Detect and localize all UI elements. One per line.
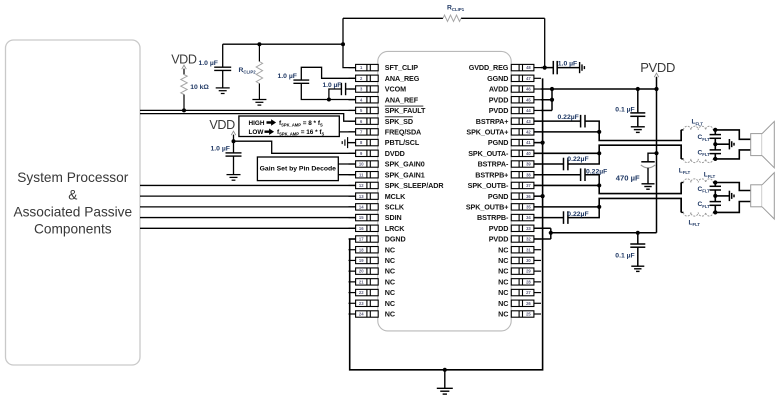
- svg-text:Associated Passive: Associated Passive: [13, 205, 132, 220]
- svg-text:26: 26: [526, 301, 531, 306]
- pin 18 NC: [349, 245, 395, 254]
- svg-text:PVDD: PVDD: [489, 235, 509, 244]
- capacitor 0.22uF (BSTRPA+): [534, 120, 581, 122]
- wire SDIN: [140, 217, 356, 219]
- wire SPK_SD net: [140, 114, 356, 122]
- svg-text:36: 36: [526, 194, 531, 199]
- svg-text:SPK_FAULT: SPK_FAULT: [385, 106, 426, 115]
- svg-text:27: 27: [526, 290, 531, 295]
- pin 32 PVDD: [489, 235, 541, 244]
- wire SPK_OUTB+: [534, 198, 681, 212]
- wire A to speaker bottom: [715, 150, 750, 159]
- ground (0.1uF bottom): [631, 265, 644, 267]
- svg-text:NC: NC: [498, 299, 508, 308]
- svg-text:1.0 µF: 1.0 µF: [278, 73, 297, 80]
- svg-text:1.0 µF: 1.0 µF: [211, 145, 230, 152]
- pin 43 BSTRPA+: [476, 117, 541, 126]
- svg-text:29: 29: [526, 269, 531, 274]
- svg-text:DGND: DGND: [385, 235, 406, 244]
- svg-text:NC: NC: [498, 277, 508, 286]
- svg-text:18: 18: [359, 247, 364, 252]
- pin 2 ANA_REG: [349, 74, 420, 83]
- junction ANA_REF node: [327, 98, 331, 102]
- capacitor 470uF: [648, 153, 657, 161]
- svg-text:NC: NC: [385, 256, 395, 265]
- svg-text:BSTRPA+: BSTRPA+: [476, 117, 509, 126]
- wire FREQ/SDA: [339, 131, 355, 133]
- svg-text:17: 17: [359, 237, 364, 242]
- pin 31 NC: [498, 245, 541, 254]
- svg-text:PVDD: PVDD: [489, 95, 509, 104]
- svg-text:0.22µF: 0.22µF: [567, 156, 588, 163]
- svg-text:21: 21: [359, 279, 364, 284]
- junction filter B bottom: [713, 210, 717, 214]
- junction BSTRPB-/OUTB+: [597, 205, 601, 209]
- pin 11 SPK_GAIN1: [349, 170, 425, 179]
- ground (GVDD_REG cap): [579, 62, 581, 73]
- svg-text:NC: NC: [385, 310, 395, 319]
- junction filter B mid: [713, 194, 717, 198]
- capacitor 1.0uF (ANA_REG): [293, 79, 309, 81]
- wire MCLK: [140, 195, 356, 197]
- wire DVDD: [233, 135, 235, 153]
- wire PGND pin41: [534, 142, 543, 144]
- wire PVDD bottom rail: [551, 232, 657, 234]
- pin 38 BSTRPB+: [475, 170, 541, 179]
- svg-text:NC: NC: [385, 245, 395, 254]
- pin 28 NC: [498, 277, 541, 286]
- pin 15 SDIN: [349, 213, 402, 222]
- wire LRCK: [140, 227, 356, 229]
- svg-text:11: 11: [359, 172, 364, 177]
- svg-text:MCLK: MCLK: [385, 192, 406, 201]
- junction 0.1uF bottom: [636, 231, 640, 235]
- junction BSTRPA-/OUTA-: [597, 151, 601, 155]
- wire SPK_GAIN0: [338, 163, 355, 165]
- pin 29 NC: [498, 267, 541, 276]
- ground (PBTL/SCL): [347, 137, 349, 148]
- junction filter A mid: [713, 142, 717, 146]
- svg-text:PBTL/SCL: PBTL/SCL: [385, 138, 420, 147]
- junction GVDD_REG: [543, 66, 547, 70]
- svg-text:NC: NC: [498, 288, 508, 297]
- svg-text:SPK_SD: SPK_SD: [385, 117, 413, 126]
- pin 36 PGND: [488, 192, 541, 201]
- svg-text:SFT_CLIP: SFT_CLIP: [385, 63, 418, 72]
- svg-text:SPK_OUTA-: SPK_OUTA-: [468, 149, 509, 158]
- svg-text:BSTRPB-: BSTRPB-: [477, 213, 509, 222]
- pin 46 AVDD: [489, 85, 541, 94]
- svg-text:BSTRPB+: BSTRPB+: [475, 170, 508, 179]
- pin 4 ANA_REF: [349, 95, 419, 104]
- wire SCLK: [140, 206, 356, 208]
- junction filter A top: [713, 128, 717, 132]
- pin 34 BSTRPB-: [477, 213, 541, 222]
- svg-text:HIGH: HIGH: [249, 120, 265, 127]
- junction BSTRPB+/OUTB-: [597, 183, 601, 187]
- wire PVDD rail vertical: [656, 77, 658, 233]
- svg-text:PGND: PGND: [488, 138, 508, 147]
- inductor L_FLT A bottom: [681, 158, 683, 160]
- wire A mid to ground: [715, 143, 729, 145]
- pin 23 NC: [349, 299, 395, 308]
- capacitor C_FLT B lower: [714, 190, 716, 202]
- wire AVDD/PVDD tie: [541, 88, 552, 90]
- pin 9 DVDD: [349, 149, 405, 158]
- pin 26 NC: [498, 299, 541, 308]
- pin 25 NC: [498, 310, 541, 319]
- wire A to speaker top: [715, 130, 750, 139]
- pin 42 SPK_OUTA+: [466, 127, 541, 136]
- IC U1 TAS5713 body: [378, 51, 511, 331]
- svg-text:1.0 µF: 1.0 µF: [323, 82, 342, 89]
- wire SPK_SLEEP/ADR: [140, 184, 356, 186]
- pin 19 NC: [349, 256, 395, 265]
- svg-text:45: 45: [526, 97, 531, 102]
- svg-text:PVDD: PVDD: [489, 106, 509, 115]
- wire SFT_CLIP node: [223, 43, 343, 45]
- svg-text:47: 47: [526, 76, 531, 81]
- svg-text:NC: NC: [498, 256, 508, 265]
- svg-text:16: 16: [359, 226, 364, 231]
- capacitor 0.22uF (BSTRPB-): [534, 217, 564, 219]
- pin 6 SPK_SD: [349, 117, 413, 126]
- svg-text:44: 44: [526, 108, 531, 113]
- svg-text:13: 13: [359, 194, 364, 199]
- ground (470uF): [642, 183, 655, 185]
- resistor R_CLIP2: [258, 44, 260, 61]
- pin 3 VCOM: [349, 85, 407, 94]
- svg-text:PGND: PGND: [488, 192, 508, 201]
- capacitor C_FLT A upper: [714, 130, 716, 135]
- pin 20 NC: [349, 267, 395, 276]
- svg-text:NC: NC: [385, 267, 395, 276]
- system processor block: [6, 40, 141, 365]
- wire SPK_OUTA-: [534, 145, 681, 159]
- capacitor 1.0uF (VCOM): [329, 89, 342, 100]
- ground (main): [444, 370, 446, 389]
- svg-text:470 µF: 470 µF: [616, 173, 640, 182]
- svg-text:28: 28: [526, 279, 531, 284]
- pin 12 SPK_SLEEP/ADR: [349, 181, 445, 190]
- junction pullup-SPK_FAULT: [182, 108, 186, 112]
- capacitor 0.1uF (top): [637, 89, 639, 113]
- capacitor 1.0uF (GVDD_REG): [541, 67, 553, 69]
- svg-text:23: 23: [359, 301, 364, 306]
- svg-text:PVDD: PVDD: [489, 224, 509, 233]
- junction DVDD cap: [232, 139, 236, 143]
- pin 7 FREQ/SDA: [349, 127, 422, 136]
- junction PVDD rail top: [654, 87, 658, 91]
- svg-text:40: 40: [526, 151, 531, 156]
- wire SPK_OUTB-: [534, 183, 681, 194]
- junction 470uF-PVDD: [654, 151, 658, 155]
- svg-text:33: 33: [526, 226, 531, 231]
- svg-text:19: 19: [359, 258, 364, 263]
- pin 37 SPK_OUTB-: [468, 181, 541, 190]
- annotation box HIGH/LOW fs: [239, 116, 339, 137]
- svg-text:35: 35: [526, 204, 531, 209]
- annotation box gain: [257, 157, 338, 181]
- pin 10 SPK_GAIN0: [349, 160, 425, 169]
- pin 21 NC: [349, 277, 395, 286]
- svg-text:42: 42: [526, 129, 531, 134]
- inductor L_FLT B bottom: [681, 211, 683, 213]
- speaker B: [751, 185, 762, 207]
- svg-text:VDD: VDD: [209, 118, 235, 132]
- junction filter A bottom: [713, 157, 717, 161]
- junction PVDD pin45: [550, 98, 554, 102]
- svg-text:10 kΩ: 10 kΩ: [190, 84, 209, 91]
- junction PGND pin41: [541, 140, 545, 144]
- junction PGND pin36: [541, 194, 545, 198]
- resistor R-pullup 10 k&#937;: [183, 69, 185, 75]
- svg-text:SPK_GAIN0: SPK_GAIN0: [385, 160, 425, 169]
- svg-text:15: 15: [359, 215, 364, 220]
- svg-text:0.1 µF: 0.1 µF: [615, 252, 634, 259]
- wire PVDD top rail: [552, 88, 657, 90]
- svg-text:GGND: GGND: [487, 74, 508, 83]
- svg-text:FREQ/SDA: FREQ/SDA: [385, 127, 421, 136]
- capacitor C_FLT B upper: [714, 183, 716, 187]
- junction PVDD bottom tie: [549, 231, 553, 235]
- svg-text:14: 14: [359, 204, 364, 209]
- pin 24 NC: [349, 310, 395, 319]
- speaker A: [751, 134, 762, 156]
- svg-text:25: 25: [526, 312, 531, 317]
- svg-text:0.22µF: 0.22µF: [567, 211, 588, 218]
- svg-text:34: 34: [526, 215, 531, 220]
- capacitor 0.22uF (BSTRPB+): [534, 174, 581, 176]
- svg-text:22: 22: [359, 290, 364, 295]
- pin 30 NC: [498, 256, 541, 265]
- capacitor 1.0uF (DVDD): [226, 152, 242, 154]
- pin 33 PVDD: [489, 224, 541, 233]
- svg-text:10: 10: [359, 162, 364, 167]
- ground (filter A): [728, 139, 730, 149]
- inductor L_FLT B top: [681, 182, 683, 184]
- ground (filter B): [728, 191, 730, 201]
- svg-text:NC: NC: [385, 277, 395, 286]
- pin 8 PBTL/SCL: [349, 138, 420, 147]
- junction AVDD: [550, 87, 554, 91]
- resistor R_CLIP1: [443, 15, 461, 21]
- pin 35 SPK_OUTB+: [466, 202, 541, 211]
- pin 13 MCLK: [349, 192, 407, 201]
- svg-text:LOW: LOW: [249, 129, 265, 136]
- svg-text:38: 38: [526, 172, 531, 177]
- capacitor 0.22uF (BSTRPA-): [534, 163, 564, 165]
- wire SPK_OUTA+: [534, 130, 681, 141]
- svg-text:41: 41: [526, 140, 531, 145]
- svg-text:SPK_GAIN1: SPK_GAIN1: [385, 170, 425, 179]
- svg-text:48: 48: [526, 65, 531, 70]
- pin 16 LRCK: [349, 224, 406, 233]
- svg-text:Gain Set by Pin Decode: Gain Set by Pin Decode: [260, 165, 337, 172]
- ground (R_CLIP2): [252, 99, 266, 101]
- svg-text:SPK_OUTB-: SPK_OUTB-: [468, 181, 509, 190]
- wire R_CLIP1 left: [343, 17, 545, 19]
- svg-text:Components: Components: [34, 222, 112, 237]
- svg-text:NC: NC: [385, 299, 395, 308]
- pin 22 NC: [349, 288, 395, 297]
- junction filter B top: [713, 180, 717, 184]
- capacitor 1.0uF (SFT_CLIP): [222, 44, 224, 67]
- svg-text:NC: NC: [498, 267, 508, 276]
- pin 1 SFT_CLIP: [349, 63, 419, 72]
- svg-text:VCOM: VCOM: [385, 85, 406, 94]
- svg-text:PVDD: PVDD: [640, 60, 675, 75]
- wire SFT_CLIP vertical: [343, 18, 356, 67]
- svg-text:ANA_REG: ANA_REG: [385, 74, 420, 83]
- svg-text:46: 46: [526, 87, 531, 92]
- svg-text:24: 24: [359, 312, 364, 317]
- pin 39 BSTRPA-: [478, 160, 541, 169]
- svg-text:0.22µF: 0.22µF: [558, 114, 579, 121]
- ground (DVDD cap): [227, 174, 241, 176]
- junction BSTRPA+/OUTA+: [597, 130, 601, 134]
- pin 17 DGND: [349, 235, 406, 244]
- junction bottom ground: [443, 368, 447, 372]
- svg-text:SPK_SLEEP/ADR: SPK_SLEEP/ADR: [385, 181, 445, 190]
- svg-text:NC: NC: [498, 245, 508, 254]
- pin 5 SPK_FAULT: [349, 106, 427, 115]
- capacitor C_FLT A lower: [714, 138, 716, 150]
- svg-text:0.22µF: 0.22µF: [586, 168, 607, 175]
- pin 45 PVDD: [489, 95, 541, 104]
- pin 40 SPK_OUTA-: [468, 149, 541, 158]
- svg-text:20: 20: [359, 269, 364, 274]
- svg-text:&: &: [68, 188, 77, 203]
- svg-text:BSTRPA-: BSTRPA-: [478, 160, 509, 169]
- svg-text:37: 37: [526, 183, 531, 188]
- junction 0.1uF top: [636, 87, 640, 91]
- wire DGND loop: [350, 78, 543, 369]
- wire PVDD bottom tie: [534, 227, 551, 229]
- pin 27 NC: [498, 288, 541, 297]
- junction SFT_CLIP tee: [341, 42, 345, 46]
- svg-text:SPK_OUTA+: SPK_OUTA+: [466, 127, 508, 136]
- svg-text:SPK_OUTB+: SPK_OUTB+: [466, 202, 508, 211]
- wire B to speaker bottom: [715, 202, 750, 213]
- wire SPK_GAIN1: [338, 174, 355, 176]
- wire GVDD_REG vertical: [544, 18, 546, 67]
- svg-text:43: 43: [526, 119, 531, 124]
- pin 48 GVDD_REG: [469, 63, 541, 72]
- svg-text:12: 12: [359, 183, 364, 188]
- ground (SFT_CLIP cap): [216, 87, 230, 89]
- svg-text:SDIN: SDIN: [385, 213, 402, 222]
- svg-text:NC: NC: [498, 310, 508, 319]
- svg-text:DVDD: DVDD: [385, 149, 405, 158]
- svg-text:ANA_REF: ANA_REF: [385, 95, 419, 104]
- pin 41 PGND: [488, 138, 541, 147]
- svg-text:AVDD: AVDD: [489, 85, 508, 94]
- svg-text:GVDD_REG: GVDD_REG: [469, 63, 509, 72]
- svg-text:LRCK: LRCK: [385, 224, 405, 233]
- ground (0.1uF top): [631, 126, 645, 128]
- capacitor 0.1uF (bottom): [637, 233, 639, 244]
- pin 44 PVDD: [489, 106, 541, 115]
- wire B to speaker top: [715, 183, 750, 191]
- wire B mid to ground: [715, 195, 729, 197]
- pin 47 GGND: [487, 74, 541, 83]
- pin 14 SCLK: [349, 202, 405, 211]
- wire filter A left: [680, 130, 682, 159]
- svg-text:31: 31: [526, 247, 531, 252]
- svg-text:32: 32: [526, 237, 531, 242]
- svg-text:0.1 µF: 0.1 µF: [615, 107, 634, 114]
- wire PGND pin36: [534, 195, 543, 197]
- svg-text:1.0 µF: 1.0 µF: [558, 60, 577, 67]
- svg-text:System Processor: System Processor: [17, 170, 128, 185]
- svg-text:1.0 µF: 1.0 µF: [199, 60, 218, 67]
- svg-text:NC: NC: [385, 288, 395, 297]
- wire SPK_FAULT net: [140, 109, 356, 111]
- svg-text:30: 30: [526, 258, 531, 263]
- junction R_CLIP2: [257, 42, 261, 46]
- wire filter B left: [680, 183, 682, 213]
- svg-text:SCLK: SCLK: [385, 202, 405, 211]
- svg-text:39: 39: [526, 162, 531, 167]
- inductor L_FLT A top: [681, 129, 683, 131]
